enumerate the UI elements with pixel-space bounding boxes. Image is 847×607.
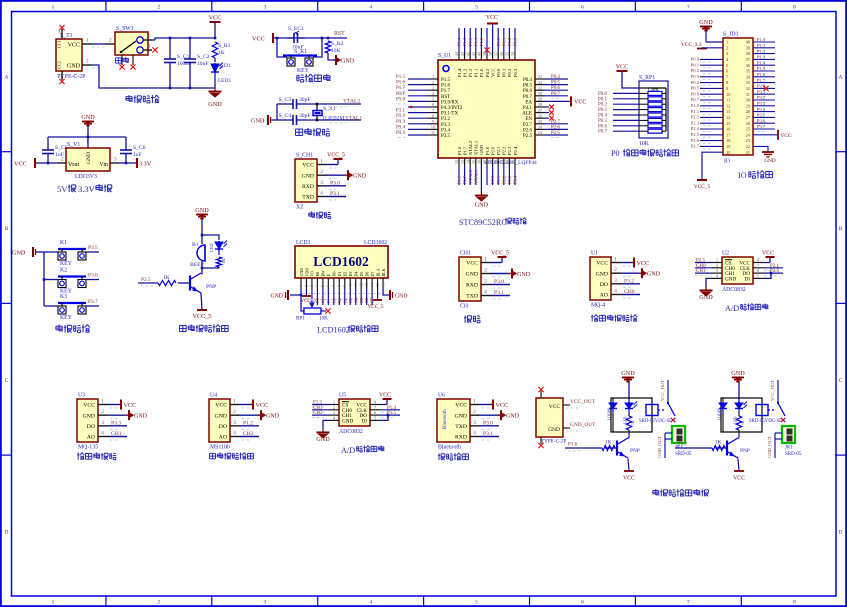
svg-text:9: 9	[343, 285, 347, 287]
svg-text:SRD-05: SRD-05	[675, 452, 692, 457]
svg-text:P0.0: P0.0	[691, 57, 700, 62]
svg-text:LOOPS: LOOPS	[718, 408, 722, 420]
svg-text:P1.2: P1.2	[468, 37, 473, 46]
svg-text:7: 7	[432, 108, 434, 113]
svg-text:VCC_5: VCC_5	[368, 304, 384, 310]
svg-text:ADC0832: ADC0832	[722, 287, 746, 293]
svg-text:2: 2	[305, 285, 309, 287]
svg-text:2: 2	[716, 263, 718, 268]
svg-text:K1: K1	[60, 240, 67, 246]
svg-text:P0.1: P0.1	[598, 97, 608, 102]
svg-text:S_V1: S_V1	[67, 142, 80, 148]
svg-text:AO: AO	[87, 435, 95, 441]
svg-text:11: 11	[354, 283, 358, 287]
svg-text:B: B	[5, 226, 9, 232]
svg-text:P2.0: P2.0	[490, 175, 495, 184]
svg-text:13: 13	[365, 283, 369, 287]
svg-text:D3: D3	[348, 272, 353, 277]
svg-text:8: 8	[432, 113, 434, 118]
svg-text:4: 4	[473, 431, 476, 437]
svg-text:GND: GND	[725, 276, 736, 282]
svg-text:2: 2	[432, 80, 434, 85]
svg-text:PNP: PNP	[740, 448, 750, 454]
svg-text:P0.2: P0.2	[507, 68, 512, 77]
svg-text:P1.7: P1.7	[441, 89, 451, 94]
svg-text:CH0: CH0	[624, 289, 635, 295]
svg-text:1: 1	[101, 399, 104, 405]
svg-text:29: 29	[538, 97, 542, 102]
svg-text:P1.5: P1.5	[396, 75, 406, 80]
svg-text:6: 6	[327, 285, 331, 287]
svg-text:YTAL1: YTAL1	[345, 115, 362, 121]
svg-text:BLK: BLK	[381, 268, 386, 276]
svg-text:10: 10	[431, 125, 435, 130]
svg-text:VCC: VCC	[215, 403, 227, 409]
svg-text:42: 42	[465, 52, 470, 56]
svg-text:8: 8	[793, 5, 796, 11]
svg-text:P1.4: P1.4	[757, 60, 766, 65]
svg-text:GND: GND	[517, 272, 531, 278]
svg-text:VO: VO	[310, 271, 315, 277]
svg-text:27: 27	[538, 108, 542, 113]
svg-text:1: 1	[86, 38, 89, 44]
svg-text:S_C2: S_C2	[197, 54, 210, 60]
svg-text:P1.6: P1.6	[457, 175, 462, 184]
svg-text:GND: GND	[299, 268, 304, 277]
svg-text:10: 10	[348, 283, 352, 287]
svg-text:P0.0: P0.0	[598, 92, 608, 97]
svg-text:2: 2	[101, 409, 104, 415]
svg-text:P3.1/TX: P3.1/TX	[441, 112, 458, 117]
svg-text:P1.2: P1.2	[243, 420, 253, 426]
svg-text:S_C6: S_C6	[133, 145, 146, 151]
svg-text:1: 1	[233, 399, 236, 405]
svg-text:P1.0: P1.0	[757, 37, 766, 42]
svg-text:VCC: VCC	[256, 402, 269, 409]
svg-text:12: 12	[359, 283, 363, 287]
svg-text:3: 3	[614, 278, 617, 284]
svg-text:P1.6: P1.6	[457, 146, 462, 155]
svg-text:P0.7: P0.7	[551, 92, 561, 97]
svg-text:P2.4: P2.4	[513, 146, 518, 155]
svg-text:P1.3: P1.3	[757, 55, 766, 60]
svg-text:P3.2: P3.2	[396, 114, 406, 119]
svg-text:7: 7	[332, 285, 336, 287]
svg-text:2: 2	[86, 59, 89, 65]
svg-text:P2.5: P2.5	[696, 259, 706, 264]
svg-text:4: 4	[320, 191, 323, 197]
svg-text:GND: GND	[731, 370, 745, 377]
svg-text:GND_OUT: GND_OUT	[767, 436, 772, 458]
svg-text:P2.5: P2.5	[551, 131, 561, 136]
svg-text:YTAL2: YTAL2	[343, 99, 360, 105]
svg-text:LCD1602: LCD1602	[364, 240, 387, 246]
svg-text:16: 16	[477, 160, 482, 164]
svg-text:Bluetooth: Bluetooth	[443, 409, 448, 429]
svg-text:34: 34	[510, 52, 515, 56]
svg-text:GND: GND	[455, 413, 467, 419]
svg-text:P2.2: P2.2	[501, 175, 506, 184]
svg-text:IO: IO	[738, 171, 747, 180]
svg-text:Bluetooth: Bluetooth	[438, 445, 461, 451]
svg-text:P3.3: P3.3	[757, 101, 766, 106]
svg-text:GND: GND	[621, 370, 635, 377]
svg-text:31: 31	[746, 92, 750, 97]
svg-text:P3.3: P3.3	[396, 120, 406, 125]
svg-text:2: 2	[333, 405, 335, 410]
svg-text:RW: RW	[320, 296, 325, 303]
svg-text:P3.4: P3.4	[757, 107, 766, 112]
svg-text:14: 14	[465, 160, 470, 164]
svg-text:37: 37	[493, 52, 498, 56]
svg-text:GND: GND	[475, 202, 489, 209]
svg-text:VCC: VCC	[455, 403, 467, 409]
svg-text:SRD-05VDC-SL-C: SRD-05VDC-SL-C	[639, 419, 677, 424]
svg-text:GND: GND	[699, 19, 713, 26]
svg-text:P2.3: P2.3	[507, 175, 512, 184]
svg-text:1K: 1K	[221, 258, 226, 264]
svg-text:MQ-4: MQ-4	[591, 303, 605, 309]
svg-text:1: 1	[726, 40, 728, 45]
svg-text:P2.7: P2.7	[523, 123, 533, 128]
svg-text:6: 6	[432, 102, 434, 107]
svg-text:VCC: VCC	[596, 261, 608, 267]
svg-text:GND: GND	[67, 64, 81, 70]
svg-text:6: 6	[581, 600, 584, 606]
svg-text:P0.2: P0.2	[598, 103, 608, 108]
svg-text:EN: EN	[525, 117, 532, 122]
svg-text:VCC: VCC	[490, 68, 495, 77]
svg-text:P3.4: P3.4	[396, 125, 406, 130]
svg-text:GND: GND	[215, 413, 227, 419]
svg-text:RXD: RXD	[466, 283, 478, 289]
svg-text:YTAL1: YTAL1	[473, 169, 478, 184]
svg-text:VCC: VCC	[496, 402, 509, 409]
svg-text:S_K1: S_K1	[294, 49, 307, 55]
svg-text:28: 28	[538, 102, 542, 107]
svg-text:XTAL2: XTAL2	[468, 140, 473, 155]
svg-text:S_U1: S_U1	[438, 53, 451, 59]
svg-text:43: 43	[460, 52, 465, 56]
svg-text:C: C	[839, 378, 843, 384]
svg-text:P2.1: P2.1	[691, 109, 700, 114]
svg-text:15: 15	[376, 283, 380, 287]
svg-text:B1: B1	[192, 242, 199, 248]
svg-text:VCC: VCC	[209, 15, 222, 22]
svg-text:30pF: 30pF	[299, 113, 311, 119]
svg-text:2: 2	[726, 45, 728, 50]
svg-text:3.3V: 3.3V	[78, 184, 96, 194]
svg-text:P2.1: P2.1	[770, 264, 780, 269]
svg-text:2: 2	[158, 5, 161, 11]
svg-text:P3.2: P3.2	[757, 95, 766, 100]
svg-text:GND: GND	[86, 152, 92, 164]
svg-text:P4.2: P4.2	[485, 68, 490, 77]
svg-text:P0.7: P0.7	[523, 95, 533, 100]
svg-text:P3.2: P3.2	[441, 117, 451, 122]
svg-text:CC2: CC2	[57, 61, 62, 69]
svg-text:P1.6: P1.6	[396, 81, 406, 86]
svg-text:P2.3: P2.3	[691, 120, 700, 125]
svg-text:JK1: JK1	[785, 446, 794, 451]
svg-text:1: 1	[614, 257, 617, 263]
svg-text:40: 40	[477, 52, 482, 56]
svg-text:P1.6: P1.6	[441, 84, 451, 89]
svg-text:P1.4: P1.4	[457, 37, 462, 46]
svg-text:P3.1: P3.1	[494, 290, 504, 296]
svg-text:P1.2: P1.2	[468, 68, 473, 77]
svg-text:2: 2	[61, 157, 64, 163]
svg-text:VCC: VCC	[733, 476, 745, 482]
svg-text:6: 6	[581, 5, 584, 11]
svg-text:A/D: A/D	[725, 304, 739, 313]
svg-text:1K: 1K	[605, 440, 612, 446]
svg-text:LCD1: LCD1	[296, 240, 311, 246]
svg-text:VCC: VCC	[68, 43, 80, 49]
svg-text:P3.7: P3.7	[88, 299, 98, 305]
svg-text:GND: GND	[316, 436, 330, 443]
svg-text:P0: P0	[611, 149, 620, 158]
svg-text:RST: RST	[396, 92, 405, 97]
svg-text:3: 3	[432, 85, 434, 90]
svg-text:21: 21	[746, 150, 750, 155]
svg-text:TXD: TXD	[302, 195, 314, 201]
svg-text:11: 11	[726, 98, 730, 103]
svg-text:PNP: PNP	[630, 448, 640, 454]
svg-text:BLA: BLA	[375, 268, 380, 276]
svg-text:GND: GND	[341, 58, 355, 64]
svg-text:AO: AO	[600, 293, 608, 299]
svg-text:19: 19	[493, 160, 498, 164]
svg-text:10K: 10K	[639, 141, 650, 147]
svg-text:1: 1	[52, 5, 55, 11]
svg-text:TYPE-C-2P: TYPE-C-2P	[541, 439, 566, 445]
svg-text:CH1: CH1	[696, 269, 706, 274]
svg-text:1K: 1K	[218, 50, 225, 56]
svg-text:U5: U5	[339, 393, 346, 399]
svg-text:17: 17	[482, 160, 487, 164]
svg-text:GND: GND	[302, 173, 314, 179]
svg-text:D6: D6	[364, 298, 369, 303]
svg-text:P0.2: P0.2	[691, 68, 700, 73]
svg-text:4: 4	[233, 431, 236, 437]
svg-text:S_R1: S_R1	[218, 43, 231, 49]
svg-text:22: 22	[746, 144, 750, 149]
svg-text:2: 2	[614, 267, 617, 273]
svg-text:P2.5: P2.5	[691, 132, 700, 137]
svg-text:VCC: VCC	[302, 163, 314, 169]
svg-text:16: 16	[381, 283, 385, 287]
svg-text:VCC: VCC	[616, 64, 629, 71]
svg-text:GND: GND	[647, 271, 661, 277]
svg-text:5V: 5V	[57, 184, 68, 194]
svg-text:P2.0: P2.0	[490, 146, 495, 155]
svg-text:LDO3V3: LDO3V3	[75, 174, 97, 180]
svg-text:P3.5: P3.5	[757, 113, 766, 118]
svg-text:11.0592M: 11.0592M	[322, 115, 344, 121]
svg-text:GND: GND	[466, 272, 478, 278]
svg-text:P0.5: P0.5	[691, 86, 700, 91]
svg-text:DO: DO	[219, 424, 227, 430]
svg-text:U1: U1	[591, 251, 598, 257]
svg-text:CH1: CH1	[313, 406, 323, 411]
svg-text:P0.3: P0.3	[513, 68, 518, 77]
svg-text:D4: D4	[353, 297, 358, 303]
svg-text:P2.0: P2.0	[691, 103, 700, 108]
svg-text:P2.1: P2.1	[496, 175, 501, 184]
svg-text:P0.1: P0.1	[691, 62, 700, 67]
svg-text:P1.3: P1.3	[462, 68, 467, 77]
svg-text:BEEP: BEEP	[190, 262, 204, 268]
svg-text:P3.6: P3.6	[757, 118, 766, 123]
svg-text:P2.4: P2.4	[691, 126, 700, 131]
svg-text:VCC_5: VCC_5	[491, 251, 509, 257]
svg-text:GND: GND	[270, 294, 283, 300]
svg-text:S_X1: S_X1	[323, 106, 336, 112]
svg-text:ADC0832: ADC0832	[339, 429, 363, 435]
svg-text:1K: 1K	[163, 275, 170, 281]
svg-text:CC1: CC1	[57, 40, 62, 48]
svg-text:CH0: CH0	[696, 264, 706, 269]
svg-text:A: A	[839, 75, 843, 81]
svg-text:U3: U3	[78, 393, 85, 399]
svg-text:LCD1602: LCD1602	[317, 326, 350, 335]
svg-text:MQ-135: MQ-135	[78, 445, 98, 451]
svg-text:EA: EA	[525, 100, 532, 105]
svg-text:VCC_3.3: VCC_3.3	[681, 42, 702, 48]
svg-text:K2: K2	[60, 268, 67, 274]
svg-text:VCC_5: VCC_5	[327, 153, 345, 159]
svg-text:VCC: VCC	[124, 402, 137, 409]
svg-text:K3: K3	[60, 294, 67, 300]
svg-text:P3.1: P3.1	[483, 431, 493, 437]
svg-text:35: 35	[505, 52, 510, 56]
svg-text:14: 14	[370, 283, 374, 287]
svg-text:12: 12	[726, 103, 730, 108]
svg-text:P0.5: P0.5	[523, 84, 533, 89]
svg-text:VCC_5: VCC_5	[694, 184, 711, 190]
svg-text:RXD: RXD	[455, 435, 467, 441]
svg-text:DO: DO	[87, 424, 95, 430]
svg-text:P3.1: P3.1	[757, 89, 766, 94]
svg-text:GND: GND	[506, 413, 520, 419]
svg-text:VCC: VCC	[466, 261, 478, 267]
svg-text:23: 23	[538, 130, 542, 135]
svg-text:10K: 10K	[331, 48, 341, 54]
svg-text:4: 4	[101, 431, 104, 437]
svg-text:RS: RS	[315, 272, 320, 277]
svg-text:D0: D0	[332, 272, 337, 277]
svg-text:P3.1: P3.1	[396, 109, 406, 114]
svg-text:RST: RST	[334, 31, 345, 37]
svg-text:10nF: 10nF	[197, 61, 209, 67]
svg-text:P0.3: P0.3	[513, 37, 518, 46]
svg-text:GND: GND	[479, 144, 484, 155]
svg-text:VCC: VCC	[83, 403, 95, 409]
svg-text:LOOPS: LOOPS	[608, 408, 612, 420]
svg-text:15: 15	[471, 160, 476, 164]
svg-text:P3.0: P3.0	[330, 180, 340, 186]
svg-text:VCC: VCC	[637, 260, 650, 267]
svg-text:2: 2	[473, 409, 476, 415]
svg-text:4: 4	[484, 290, 487, 296]
svg-text:TXD: TXD	[455, 424, 467, 430]
svg-text:TXD: TXD	[466, 294, 478, 300]
svg-text:TYPE-C-2P: TYPE-C-2P	[57, 74, 85, 80]
svg-text:3: 3	[101, 420, 104, 426]
svg-text:AO: AO	[219, 435, 227, 441]
svg-text:D1: D1	[337, 272, 342, 277]
svg-text:GND: GND	[342, 418, 353, 424]
svg-text:VCC: VCC	[379, 393, 391, 399]
svg-text:VCC: VCC	[549, 404, 561, 410]
svg-text:P3.0: P3.0	[494, 279, 504, 285]
svg-text:S_EC1: S_EC1	[288, 26, 304, 32]
svg-text:P2.5: P2.5	[523, 134, 533, 139]
svg-text:44: 44	[454, 52, 459, 56]
svg-text:VCC_OUT: VCC_OUT	[660, 380, 665, 401]
svg-text:4: 4	[369, 600, 372, 606]
svg-text:2: 2	[320, 169, 323, 175]
svg-text:18: 18	[488, 160, 493, 164]
svg-text:GND: GND	[699, 294, 713, 301]
svg-text:U4: U4	[210, 393, 217, 399]
svg-text:D6: D6	[364, 272, 369, 277]
svg-text:P3.4: P3.4	[441, 128, 451, 133]
svg-text:KEY: KEY	[60, 315, 73, 321]
svg-text:P2.5: P2.5	[141, 277, 151, 283]
svg-text:PNP: PNP	[206, 284, 216, 290]
svg-text:VCC_OUT: VCC_OUT	[570, 399, 596, 405]
svg-text:GND: GND	[12, 250, 26, 257]
svg-text:1: 1	[320, 159, 323, 165]
svg-text:P2.6: P2.6	[523, 128, 533, 133]
svg-text:CH1: CH1	[111, 431, 122, 437]
svg-text:GND: GND	[208, 101, 222, 108]
svg-text:P1.7: P1.7	[678, 442, 688, 448]
svg-text:DI: DI	[362, 418, 368, 424]
svg-text:VCC: VCC	[781, 133, 792, 139]
svg-text:P3.5: P3.5	[88, 245, 98, 251]
svg-text:8: 8	[337, 285, 341, 287]
svg-text:D: D	[5, 530, 9, 536]
svg-text:9: 9	[432, 119, 434, 124]
svg-text:ALE: ALE	[522, 112, 532, 117]
svg-text:VCC: VCC	[762, 251, 774, 257]
svg-text:GND_OUT: GND_OUT	[657, 436, 662, 458]
svg-text:P1.6: P1.6	[568, 442, 578, 448]
svg-text:P2.6: P2.6	[551, 125, 561, 130]
svg-text:KEY: KEY	[60, 261, 73, 267]
svg-text:13: 13	[460, 160, 465, 164]
svg-text:P1.7: P1.7	[396, 86, 406, 91]
svg-text:P1.0: P1.0	[479, 68, 484, 77]
svg-text:41: 41	[471, 52, 476, 56]
svg-text:30pF: 30pF	[299, 97, 311, 103]
svg-text:7: 7	[687, 600, 690, 606]
svg-text:GND: GND	[353, 173, 367, 179]
svg-text:1K: 1K	[631, 420, 635, 425]
svg-text:GND: GND	[548, 427, 560, 433]
svg-text:P1.7: P1.7	[462, 146, 467, 155]
svg-text:7: 7	[687, 5, 690, 11]
svg-text:25: 25	[538, 119, 542, 124]
svg-text:CH: CH	[460, 304, 469, 310]
svg-text:1: 1	[299, 285, 303, 287]
svg-text:33: 33	[538, 74, 542, 79]
svg-text:1: 1	[333, 400, 335, 405]
svg-text:3: 3	[148, 34, 151, 40]
